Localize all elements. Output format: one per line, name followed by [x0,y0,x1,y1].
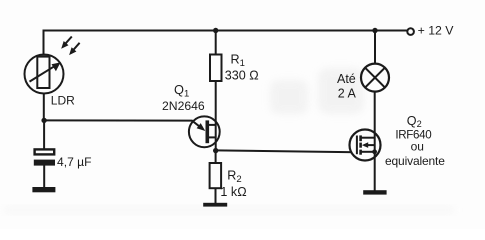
MOSFET Q2 channel segment top [359,135,362,141]
+12V terminal circle [407,28,414,35]
junction dot source [372,149,377,154]
wire: node A to UJT emitter [44,120,201,127]
resistor R1 body [210,55,222,82]
MOSFET Q2 channel segment middle [359,143,362,148]
ground (capacitor) [32,187,55,192]
wire: lamp to drain, through to source and ground [374,92,376,191]
LDR variability arrow [30,62,61,81]
ground (MOSFET source) [363,190,386,194]
lamp branch wire from rail [374,31,376,65]
resistor R2 body [210,163,222,188]
lamp L1 X stroke 1 [365,68,385,88]
svg-text:2N2646: 2N2646 [162,99,205,113]
svg-text:equivalente: equivalente [385,154,445,168]
UJT Q1 base-1 stub [209,136,217,138]
MOSFET Q2 body link with arrow [364,144,375,146]
UJT Q1 circle [189,116,220,147]
svg-text:+ 12 V: + 12 V [418,24,455,38]
lamp L1 X stroke 2 [365,68,385,88]
junction node A (LDR/cap/emitter) [41,118,46,123]
svg-text:LDR: LDR [51,93,75,107]
svg-text:330 Ω: 330 Ω [225,69,259,83]
wire: node B down to R2 [215,150,217,163]
UJT Q1 emitter arrow [197,123,206,131]
MOSFET Q2 source link [361,151,375,153]
MOSFET Q2 circle [350,130,381,161]
wire: LDR top lead [43,30,45,56]
svg-text:Até: Até [337,72,356,86]
wire: top supply rail [44,30,408,32]
capacitor C1 bottom plate [34,160,55,166]
MOSFET Q2 drain link [361,137,375,139]
MOSFET Q2 channel segment bottom [359,150,362,155]
scan ghost artifact right [318,68,364,114]
LDR body rectangle [37,57,49,88]
wire: node B to MOSFET gate [216,150,357,152]
scan ghost artifact left [270,80,308,114]
capacitor C1 top plate [35,149,55,154]
MOSFET Q2 gate bar [356,136,358,155]
svg-text:2 A: 2 A [338,87,357,101]
wire: R1 branch vertical [215,30,217,56]
lamp L1 circle [361,64,389,92]
scan streak bottom [4,207,454,213]
wire: R2 to ground [215,188,217,203]
light arrow 2 [69,43,80,55]
junction node rail/lamp [372,28,377,33]
svg-text:4,7 µF: 4,7 µF [57,155,92,169]
wire: capacitor to ground [43,166,45,188]
ground (R2) [203,203,227,207]
junction node rail/R1 [213,28,218,33]
LDR photoresistor circle [25,55,64,94]
UJT Q1 base-2 stub [209,124,217,126]
light arrow 1 [61,37,72,49]
wire: LDR bottom lead [43,94,45,122]
UJT Q1 base bar [206,120,210,143]
svg-text:ou: ou [411,140,424,154]
junction node B (B1/R2/gate) [213,148,218,153]
wire: node A down to capacitor [43,120,45,149]
svg-text:1 kΩ: 1 kΩ [220,185,246,199]
wire: R1 bottom to node B [215,81,217,151]
